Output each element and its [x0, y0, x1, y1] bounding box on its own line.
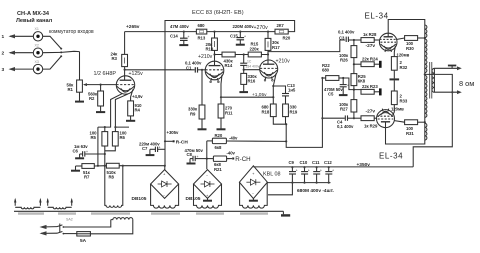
svg-text:6к8: 6к8 — [215, 145, 222, 150]
svg-text:R30: R30 — [406, 46, 414, 51]
svg-text:+: + — [159, 146, 161, 150]
ground under C15 — [236, 40, 245, 45]
bias terminal bottom — [379, 88, 382, 95]
svg-text:R27: R27 — [340, 106, 348, 111]
resistor R33 — [391, 80, 397, 107]
svg-text:ECC 83 (6Н2П- ЕВ): ECC 83 (6Н2П- ЕВ) — [192, 10, 244, 16]
resistor R13 — [196, 29, 206, 34]
resistor R31 — [405, 120, 425, 125]
node R9 top — [201, 69, 203, 71]
wire R3 to plate — [124, 67, 126, 77]
ground KBL08 bottom — [249, 199, 258, 201]
svg-text:22к R23: 22к R23 — [362, 84, 378, 89]
ground on secondary — [448, 66, 456, 69]
svg-text:R20: R20 — [283, 36, 291, 41]
svg-text:680: 680 — [198, 23, 206, 28]
jack X3 — [33, 64, 42, 73]
svg-text:+: + — [320, 168, 322, 172]
capacitor C7 — [155, 146, 164, 152]
ground under R16 — [239, 84, 248, 92]
node C4 left — [321, 117, 323, 119]
ground bus under caps — [267, 182, 330, 184]
secondary top wire — [434, 66, 461, 70]
node C16 top — [243, 53, 245, 55]
wire plate V3 to transformer — [388, 20, 425, 34]
wire R25 bottom to R27 — [353, 90, 355, 100]
+350v bus — [253, 166, 413, 168]
wire R17 to plate V2b — [267, 50, 269, 60]
ground R7 left — [71, 166, 80, 171]
bias resistor R20b 6к8 — [207, 138, 286, 143]
capacitor C14 — [180, 32, 190, 41]
wire R5 R6 join — [105, 146, 116, 166]
resistor R30 — [405, 36, 425, 41]
wire switch bottom to fuse — [63, 233, 76, 235]
svg-text:R20: R20 — [215, 133, 223, 138]
svg-text:+350v: +350v — [357, 162, 371, 168]
cathode V2b wire — [273, 73, 276, 104]
svg-text:8 ом: 8 ом — [459, 79, 474, 88]
svg-text:EL-34: EL-34 — [365, 12, 389, 21]
svg-text:22к R24: 22к R24 — [362, 56, 378, 61]
capacitor C4 — [345, 115, 361, 120]
shared ground bar R32 R33 — [390, 78, 400, 80]
wire R28 to grid EL34 top — [374, 39, 379, 41]
potentiometer R1 — [77, 80, 89, 92]
svg-text:+125v: +125v — [129, 71, 144, 77]
svg-text:С5: С5 — [328, 92, 334, 97]
svg-text:220М 400v: 220М 400v — [233, 24, 255, 29]
svg-text:R13: R13 — [198, 36, 206, 41]
svg-text:R14: R14 — [225, 63, 233, 68]
heater wire right 6N8P — [115, 94, 129, 131]
svg-text:-40v: -40v — [227, 150, 236, 155]
wire HV winding risers — [105, 166, 123, 203]
node +125v — [124, 69, 126, 71]
svg-text:С7: С7 — [142, 146, 148, 151]
wire screen V3 to R30 — [397, 38, 405, 39]
heater wire left 6N8P — [98, 94, 122, 132]
node UL tap lower — [424, 121, 426, 123]
node C5 top — [342, 77, 344, 79]
svg-text:1: 1 — [2, 34, 5, 40]
node C15 — [239, 31, 241, 33]
wire fuse to primary — [90, 220, 132, 234]
svg-text:С3: С3 — [339, 35, 345, 40]
ground under C14 — [179, 40, 188, 45]
resistor R21 — [207, 156, 230, 161]
selector contact 1 — [60, 48, 62, 50]
tube V3 EL-34 upper — [379, 33, 397, 52]
resistor R22 — [322, 76, 343, 81]
resistor R25 — [351, 74, 357, 90]
svg-text:R21: R21 — [214, 167, 222, 172]
node cathode line — [272, 96, 274, 98]
svg-text:EL-34: EL-34 — [379, 152, 403, 161]
svg-text:6К8: 6К8 — [358, 79, 366, 84]
svg-text:R2: R2 — [89, 96, 95, 101]
wire R1 wiper to grid — [89, 84, 117, 86]
svg-text:C9: C9 — [289, 160, 295, 165]
svg-text:-40v: -40v — [229, 136, 238, 141]
svg-text:R19: R19 — [290, 109, 298, 114]
svg-text:R31: R31 — [406, 131, 414, 136]
svg-text:R-CH: R-CH — [235, 156, 250, 163]
resistor R32 — [391, 57, 397, 79]
svg-text:С6: С6 — [73, 149, 79, 154]
capacitor C11 — [313, 167, 322, 182]
svg-text:2: 2 — [2, 51, 5, 57]
resistor R6 — [112, 132, 118, 146]
feedback loop wire (R20 to DB105 B+) — [165, 21, 295, 166]
svg-text:R7: R7 — [84, 175, 90, 180]
fuse 5А — [77, 232, 91, 236]
wire cathode to R4 — [131, 89, 133, 101]
resistor R15 — [248, 52, 261, 57]
svg-text:R5: R5 — [91, 135, 97, 140]
resistor R5 — [102, 132, 108, 146]
svg-text:DB105: DB105 — [132, 196, 147, 202]
ground under C6 — [75, 154, 84, 158]
capacitor C1 — [195, 67, 205, 72]
winding under KBL08 — [240, 203, 268, 208]
tube V1 1/2 6N8P — [116, 76, 134, 94]
primary winding — [111, 218, 133, 220]
svg-text:1к R28: 1к R28 — [363, 32, 377, 37]
wire jack3 to selector — [43, 57, 61, 70]
node C14 — [183, 31, 185, 33]
node R18 R19 — [285, 123, 287, 125]
resistor R19 — [283, 96, 289, 117]
resistor R23 — [361, 89, 379, 94]
node plate V2b — [267, 53, 269, 55]
heater winding 2 — [47, 198, 73, 209]
svg-text:коммутатор входов: коммутатор входов — [49, 29, 94, 35]
svg-text:C15: C15 — [230, 34, 238, 39]
wire screen V4 to R31 — [394, 121, 404, 123]
wire plate V2b to C3 — [268, 40, 345, 55]
selector contact 3 — [60, 55, 62, 57]
node primary center tap — [424, 73, 426, 75]
wire R26b to R25 — [353, 64, 355, 73]
svg-text:R18: R18 — [262, 109, 270, 114]
svg-text:2К7: 2К7 — [277, 23, 285, 28]
svg-text:R4: R4 — [135, 108, 141, 113]
node C10 top — [303, 166, 305, 168]
svg-text:+: + — [197, 155, 199, 159]
wire DB105a plus stem — [164, 166, 166, 170]
ground under R1 — [75, 92, 84, 101]
svg-text:680: 680 — [322, 68, 330, 73]
svg-text:+: + — [86, 150, 88, 154]
resistor R18 — [270, 104, 276, 117]
winding under DB105b — [194, 203, 222, 208]
selector lever — [61, 51, 79, 52]
svg-text:X2: X2 — [35, 44, 39, 48]
wire C4 line — [322, 117, 344, 119]
node R22 left — [321, 77, 323, 79]
svg-text:R6: R6 — [120, 135, 126, 140]
svg-text:1/2 6Н8Р: 1/2 6Н8Р — [94, 71, 117, 77]
node feedback tap — [451, 91, 453, 93]
capacitor C12 — [325, 167, 334, 182]
jack X2 — [33, 48, 42, 57]
capacitor C5 — [340, 78, 349, 87]
wire C16 to grid V2b — [244, 69, 260, 71]
node C11 bottom — [316, 182, 318, 184]
svg-text:470М 50v: 470М 50v — [324, 87, 343, 92]
chassis ground — [281, 211, 290, 215]
svg-text:СН-А МХ-34: СН-А МХ-34 — [17, 11, 50, 17]
svg-text:+265v: +265v — [126, 24, 140, 30]
svg-text:R16: R16 — [248, 78, 256, 83]
node C12 bottom — [328, 182, 330, 184]
capacitor C16 — [240, 55, 247, 70]
bridge DB105 b — [194, 170, 222, 199]
feedback node wire down — [286, 78, 322, 148]
wires DB105b AC to winding — [194, 184, 222, 203]
wire jack2 to selector — [43, 51, 61, 53]
svg-text:0,1 400v: 0,1 400v — [337, 124, 354, 129]
wire jack1 to selector — [43, 36, 61, 48]
svg-text:R17: R17 — [272, 45, 280, 50]
R-CH arrow bottom — [227, 156, 251, 163]
node R-CH tap — [164, 140, 166, 142]
transformer core line — [14, 211, 283, 213]
resistor R3 — [122, 54, 128, 66]
svg-text:R-CH: R-CH — [176, 140, 189, 146]
+265v rail — [125, 31, 275, 33]
svg-text:+: + — [347, 83, 349, 87]
node UL tap upper — [424, 37, 426, 39]
node -40v join — [285, 140, 287, 142]
svg-text:3: 3 — [2, 67, 5, 73]
svg-text:R8: R8 — [109, 175, 115, 180]
HV winding — [105, 203, 123, 207]
wires KBL08 AC to winding — [240, 182, 268, 203]
wire R18 R19 join — [273, 117, 286, 125]
svg-text:C10: C10 — [300, 160, 308, 165]
svg-text:334 400v: 334 400v — [246, 64, 260, 68]
svg-text:0,1 400v: 0,1 400v — [338, 30, 355, 35]
svg-text:Левый канал: Левый канал — [16, 17, 53, 24]
svg-text:SA2: SA2 — [66, 217, 73, 221]
mains arrow bottom — [40, 231, 58, 235]
svg-text:220к: 220к — [250, 46, 260, 51]
selector contact 2 — [60, 51, 62, 53]
node R7 R2gnd link — [97, 165, 99, 167]
mains arrow top — [40, 225, 58, 229]
svg-text:47М 400v: 47М 400v — [170, 24, 189, 29]
svg-text:+: + — [308, 168, 310, 172]
input arrow 2 — [9, 51, 34, 55]
ground under C8 — [187, 159, 196, 164]
wire bias rail down — [206, 141, 208, 169]
svg-text:R33: R33 — [400, 98, 408, 103]
node C6 — [104, 153, 106, 155]
svg-text:R3: R3 — [112, 56, 118, 61]
bridge KBL08 — [239, 166, 267, 199]
ground under C7 — [146, 149, 156, 155]
ground under R11 — [217, 118, 226, 129]
wire switch top to primary — [63, 220, 110, 227]
svg-text:-27v: -27v — [366, 108, 376, 114]
svg-text:X1: X1 — [35, 27, 39, 31]
svg-text:+210v: +210v — [276, 59, 291, 65]
svg-text:-27v: -27v — [366, 43, 376, 49]
node cathode V2a — [220, 96, 222, 98]
svg-text:R10: R10 — [206, 47, 214, 52]
svg-text:C12: C12 — [324, 160, 332, 165]
node R25 bottom — [353, 89, 355, 91]
svg-text:5А: 5А — [80, 238, 87, 244]
node C9 bottom — [291, 182, 293, 184]
resistor R14 — [222, 52, 235, 57]
wire selector to R1 — [79, 52, 81, 80]
bias terminal top — [379, 61, 382, 68]
node grid V2b — [243, 69, 245, 71]
wire bus to chassis ground — [268, 183, 292, 195]
svg-text:C11: C11 — [312, 160, 320, 165]
wire heater bias riser — [97, 127, 99, 166]
svg-text:+270v: +270v — [254, 25, 269, 31]
resistor R27 — [351, 100, 357, 119]
wire center tap to +350v — [413, 74, 452, 166]
capacitor C15 — [237, 32, 247, 40]
resistor R11 — [218, 104, 224, 118]
tube V4 EL-34 lower — [377, 109, 395, 128]
svg-text:R9: R9 — [190, 111, 196, 116]
resistor R10 — [212, 32, 218, 51]
capacitor C13 — [282, 94, 289, 96]
capacitor C6 — [83, 150, 105, 156]
input arrow 3 — [9, 67, 34, 71]
resistor R17 — [265, 32, 271, 51]
bias winding — [151, 203, 179, 208]
svg-text:+: + — [188, 35, 190, 39]
svg-text:R32: R32 — [400, 65, 408, 70]
node C11 top — [316, 166, 318, 168]
tube V2a ECC83 — [205, 61, 224, 82]
capacitor C10 — [301, 167, 310, 182]
wire grid V4 — [376, 117, 378, 119]
resistor R7 — [76, 164, 107, 169]
ground under R4 — [126, 116, 135, 121]
svg-text:KBL 08: KBL 08 — [263, 171, 280, 177]
resistor R28 — [361, 38, 374, 43]
resistor R26 — [351, 40, 357, 64]
node C9 top — [291, 166, 293, 168]
svg-text:C14: C14 — [170, 34, 178, 39]
ground under C5 — [339, 87, 348, 95]
tube V2b ECC83 — [260, 60, 278, 81]
heater winding 1 — [14, 198, 42, 209]
input arrow 1 — [9, 34, 34, 38]
plate line R14 R15 — [215, 54, 269, 56]
wire to C13 — [273, 86, 285, 93]
resistor R9 — [199, 70, 205, 119]
resistor R8 — [106, 163, 164, 168]
resistor R29 — [361, 116, 377, 121]
node R2 top — [100, 84, 102, 86]
output secondary — [432, 68, 434, 92]
wires DB105a AC to winding — [151, 184, 179, 203]
node C10 bottom — [303, 182, 305, 184]
node R17 top — [267, 31, 269, 33]
node C12 top — [328, 166, 330, 168]
wire rail to R3 — [124, 32, 126, 55]
svg-text:+: + — [244, 34, 246, 38]
wire R10 to plate V2a — [214, 50, 216, 61]
svg-text:+210v: +210v — [198, 54, 213, 60]
svg-text:+: + — [296, 168, 298, 172]
svg-text:1С: 1С — [247, 60, 252, 64]
node R8 left — [104, 165, 106, 167]
svg-text:+4,9v: +4,9v — [132, 94, 143, 99]
cathode V2a wire — [221, 75, 222, 104]
node plate V2a — [213, 53, 215, 55]
node DB105a plus — [164, 165, 166, 167]
output transformer primary — [425, 24, 427, 140]
ground under R9 — [198, 119, 207, 129]
wire plate V4 to transformer bottom — [386, 128, 425, 144]
resistor R4 — [128, 101, 134, 116]
svg-text:+305v: +305v — [167, 130, 179, 135]
resistor R16 — [241, 70, 247, 85]
capacitor C3 — [346, 37, 361, 42]
wire R22 to R25 bottom — [343, 78, 361, 90]
svg-text:1к R29: 1к R29 — [364, 123, 378, 128]
bridge DB105 a — [151, 170, 179, 199]
node heater left — [104, 126, 106, 128]
svg-text:X3: X3 — [35, 60, 39, 64]
capacitor C8 — [193, 155, 207, 161]
capacitor C9 — [289, 167, 298, 182]
cathode link line V2a-V2b — [221, 96, 273, 98]
R-CH arrow left — [165, 140, 188, 146]
svg-text:120мв: 120мв — [397, 52, 410, 57]
wire R33 to cathode V4 — [393, 108, 395, 116]
node cathode C13 branch — [272, 85, 274, 87]
svg-text:1н5: 1н5 — [288, 88, 296, 93]
svg-text:R1: R1 — [68, 87, 74, 92]
node R27 bottom — [353, 117, 355, 119]
svg-text:R26: R26 — [340, 58, 348, 63]
transformer core — [430, 62, 432, 99]
node R10 top — [213, 31, 215, 33]
node HV riser — [122, 165, 124, 167]
jack X1 — [33, 32, 42, 41]
node R26 top — [353, 39, 355, 41]
svg-text:С8: С8 — [187, 152, 193, 157]
node heater right — [114, 126, 116, 128]
svg-text:+: + — [332, 168, 334, 172]
ground under R2 — [96, 106, 105, 112]
wire cathode V3 to R32 — [394, 46, 395, 57]
node R26 bottom — [353, 63, 355, 65]
resistor R2 — [98, 85, 104, 106]
svg-text:R11: R11 — [225, 110, 233, 115]
svg-text:С1: С1 — [186, 65, 192, 70]
svg-text:120мв: 120мв — [391, 106, 404, 111]
secondary bottom wire — [434, 90, 461, 94]
node R21 join — [206, 158, 208, 160]
resistor R24 — [354, 62, 379, 67]
svg-text:680М 400v -4шт.: 680М 400v -4шт. — [297, 188, 334, 194]
switch SA2 — [57, 224, 64, 235]
ground DB105b bottom — [203, 198, 212, 200]
wire plate node to C1 — [125, 69, 195, 71]
